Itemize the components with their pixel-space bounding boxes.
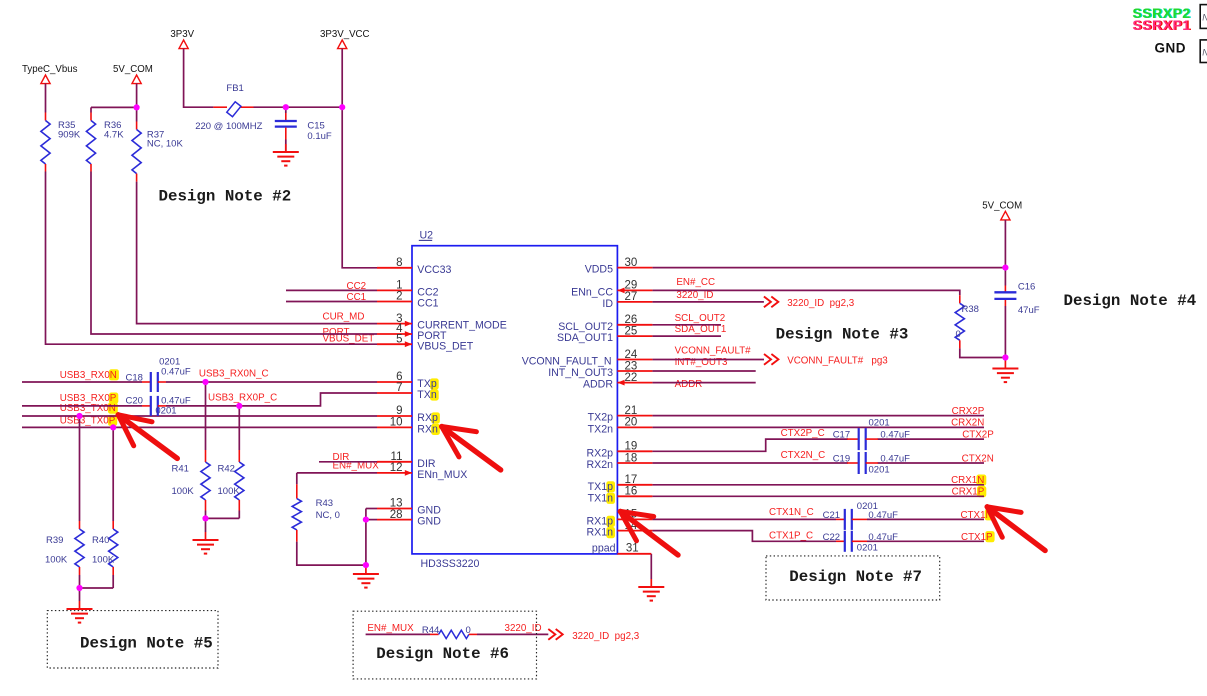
- wire R36 bottom to PORT pin4: [91, 172, 377, 335]
- svg-text:10: 10: [390, 417, 403, 429]
- svg-text:25: 25: [625, 325, 638, 337]
- svg-text:20: 20: [625, 417, 638, 429]
- net label CRX1P: [977, 486, 986, 497]
- pin 3 CURRENT_MODE: [377, 323, 412, 325]
- svg-text:0201: 0201: [857, 501, 878, 512]
- svg-text:Design Note #6: Design Note #6: [376, 645, 509, 663]
- capacitor C19: [847, 462, 859, 464]
- svg-text:Design Note #3: Design Note #3: [776, 325, 909, 343]
- wire USB3_RX0N_C row C18 to TXp pin6: [166, 381, 377, 383]
- resistor R35: [45, 113, 47, 121]
- svg-text:26: 26: [625, 314, 638, 326]
- svg-text:TypeC_Vbus: TypeC_Vbus: [22, 64, 78, 75]
- svg-text:C15: C15: [307, 120, 324, 131]
- wire ADDR pin22: [652, 382, 755, 384]
- pin 26 SCL_OUT2: [617, 324, 652, 326]
- wire C15 tap: [285, 107, 287, 113]
- svg-text:R40: R40: [92, 535, 109, 546]
- svg-text:Design Note #5: Design Note #5: [80, 634, 213, 652]
- annotation arrow at RXn pin: [442, 427, 501, 470]
- svg-text:0.47uF: 0.47uF: [880, 430, 910, 441]
- svg-text:3220_ID pg2,3: 3220_ID pg2,3: [787, 298, 855, 309]
- svg-text:CUR_MD: CUR_MD: [323, 312, 365, 323]
- svg-text:Design Note #4: Design Note #4: [1064, 292, 1197, 310]
- svg-text:3220_ID: 3220_ID: [676, 290, 713, 301]
- svg-text:CTX2N_C: CTX2N_C: [781, 450, 826, 461]
- svg-text:C17: C17: [833, 430, 850, 441]
- net label USB3_RX0P: [109, 393, 118, 404]
- pin 23 INT_N_OUT3: [617, 370, 652, 372]
- svg-text:RX2n: RX2n: [586, 459, 613, 471]
- ground (C16/R38): [1004, 361, 1006, 369]
- svg-text:ADDR: ADDR: [675, 379, 703, 390]
- wire C19 to CTX2N: [878, 462, 985, 464]
- wire ppad pin31 to ground: [650, 554, 652, 579]
- svg-text:USB3_TX0P: USB3_TX0P: [60, 415, 116, 426]
- resistor R40: [112, 521, 114, 529]
- pin 1 CC2: [377, 289, 412, 291]
- junction node GND pins: [363, 517, 369, 523]
- svg-text:C22: C22: [823, 532, 840, 543]
- svg-text:C21: C21: [823, 510, 840, 521]
- svg-text:R38: R38: [962, 304, 979, 315]
- svg-text:C16: C16: [1018, 281, 1035, 292]
- svg-text:100K: 100K: [172, 486, 195, 497]
- junction node R41/R42 gnd: [202, 515, 208, 521]
- junction node R39/R40 gnd: [76, 585, 82, 591]
- svg-text:VCC33: VCC33: [417, 264, 451, 276]
- svg-text:USB3_RX0N: USB3_RX0N: [60, 370, 117, 381]
- pin 13 GND: [377, 508, 412, 510]
- junction node USB3_RX0N_C: [202, 379, 208, 385]
- net label CTX1N: [985, 509, 995, 520]
- wire SCL_OUT2 pin26: [652, 324, 721, 326]
- svg-text:4.7K: 4.7K: [104, 129, 124, 140]
- pin 4 PORT: [377, 333, 412, 335]
- ground (R41/R42): [205, 532, 207, 540]
- wire RX1p pin15 to C21: [652, 518, 836, 520]
- svg-text:CTX1P_C: CTX1P_C: [769, 531, 813, 542]
- svg-text:RX1p: RX1p: [586, 516, 613, 528]
- junction node USB3_TX0P: [110, 424, 116, 430]
- svg-text:0.47uF: 0.47uF: [880, 454, 910, 465]
- capacitor C21: [836, 518, 845, 520]
- wire VDD5 pin30 to 5V_COM node: [652, 267, 1005, 269]
- svg-text:100K: 100K: [45, 554, 68, 565]
- svg-text:3P3V: 3P3V: [170, 29, 194, 40]
- junction node 3P3V_VCC: [339, 104, 345, 110]
- wire TX1n pin16 to CRX1P: [652, 495, 984, 497]
- resistor R36: [90, 113, 92, 121]
- svg-text:TXn: TXn: [417, 389, 437, 401]
- svg-text:18: 18: [625, 452, 638, 464]
- off-page connector 3220_ID (pin27): [764, 297, 778, 308]
- junction node 5V_COM/R36: [134, 104, 140, 110]
- pin 16 TX1n: [617, 495, 652, 497]
- svg-text:0201: 0201: [857, 542, 878, 553]
- svg-text:EN#_CC: EN#_CC: [676, 277, 715, 288]
- svg-text:SDA_OUT1: SDA_OUT1: [675, 324, 727, 335]
- wire 3P3V_VCC down to VCC33 pin8: [342, 49, 377, 268]
- pin 27 ID: [617, 301, 652, 303]
- ferrite bead FB1: [213, 106, 227, 108]
- wire RX2p pin19 jog to C17: [652, 439, 848, 451]
- svg-text:29: 29: [625, 280, 638, 292]
- svg-text:Design Note #2: Design Note #2: [159, 187, 292, 205]
- svg-text:TX2p: TX2p: [588, 412, 613, 424]
- pin 12 ENn_MUX: [377, 472, 412, 474]
- resistor R43: [296, 484, 298, 498]
- resistor R37: [136, 122, 138, 130]
- pin 15 RX1p: [617, 518, 652, 520]
- svg-text:17: 17: [625, 474, 638, 486]
- pin 8 VCC33: [377, 267, 412, 269]
- svg-text:0: 0: [956, 329, 961, 340]
- junction node C15 tap: [283, 104, 289, 110]
- wire R39/R40 bottoms join to ground: [79, 575, 81, 588]
- svg-text:100K: 100K: [218, 486, 241, 497]
- junction node USB3_RX0P_C: [236, 403, 242, 409]
- svg-text:TX1n: TX1n: [588, 492, 613, 504]
- off-page connector VCONN_FAULT#: [764, 354, 778, 365]
- annotation arrow at CTX1N: [987, 507, 1045, 551]
- wire CC2: [286, 289, 377, 291]
- wire TX2n pin20 to CRX2N: [652, 426, 984, 428]
- svg-text:0201: 0201: [869, 465, 890, 476]
- svg-text:5: 5: [396, 333, 402, 345]
- svg-text:RXp: RXp: [417, 412, 438, 424]
- svg-text:SSRXP1: SSRXP1: [1132, 17, 1190, 33]
- wire TX1p pin17 to CRX1N: [652, 484, 984, 486]
- pin 6 TXp: [377, 381, 412, 383]
- pin 22 ADDR: [617, 382, 652, 384]
- svg-text:HD3SS3220: HD3SS3220: [421, 558, 480, 570]
- pin 24 VCONN_FAULT_N: [617, 359, 652, 361]
- junction node USB3_TX0N: [76, 413, 82, 419]
- pin 19 RX2p: [617, 450, 652, 452]
- wire USB3_TX0N row to RXp pin9: [22, 415, 377, 417]
- wire C16 column: [1004, 268, 1006, 286]
- wire EN#_MUX to pin12 and down to R43: [297, 472, 377, 474]
- ground (C15): [285, 144, 287, 152]
- svg-text:909K: 909K: [58, 129, 81, 140]
- pin 11 DIR: [377, 461, 412, 463]
- svg-text:N: N: [1202, 13, 1207, 23]
- pin 14 RX1n: [617, 530, 652, 532]
- pin 30 VDD5: [617, 267, 652, 269]
- wire USB3_RX0P_C branch down to R42: [238, 406, 240, 450]
- pin 5 VBUS_DET: [377, 343, 412, 345]
- svg-text:19: 19: [625, 441, 638, 453]
- note box 1 (clipped at right edge): [1200, 5, 1207, 29]
- wire SDA_OUT1 pin25: [652, 335, 721, 337]
- wire USB3_TX0P row to RXn pin10: [22, 426, 377, 428]
- svg-text:RXn: RXn: [417, 424, 438, 436]
- power symbol 3P3V: [179, 40, 188, 49]
- svg-text:16: 16: [625, 486, 638, 498]
- wire R37 bottom to CURRENT_MODE pin3: [137, 182, 377, 324]
- svg-text:CTX1N_C: CTX1N_C: [769, 507, 814, 518]
- capacitor C15: [285, 113, 287, 120]
- svg-text:ADDR: ADDR: [583, 379, 613, 391]
- svg-text:100K: 100K: [92, 554, 115, 565]
- svg-text:CTX2P_C: CTX2P_C: [781, 428, 825, 439]
- pin 9 RXp: [377, 415, 412, 417]
- svg-text:EN#_MUX: EN#_MUX: [367, 623, 414, 634]
- annotation arrow at pin15: [620, 511, 678, 555]
- wire CC1: [286, 301, 377, 303]
- pin 25 SDA_OUT1: [617, 335, 652, 337]
- wire 3P3V to FB1: [184, 49, 214, 108]
- box Design Note #7: [766, 556, 940, 600]
- pin 21 TX2p: [617, 415, 652, 417]
- svg-text:ENn_CC: ENn_CC: [571, 287, 613, 299]
- svg-text:VCONN_FAULT#: VCONN_FAULT#: [675, 346, 752, 357]
- wire 3220_ID pin27 to offpage: [652, 301, 764, 303]
- svg-text:Design Note #7: Design Note #7: [789, 568, 922, 586]
- net label USB3_TX0N: [108, 403, 118, 414]
- svg-text:47uF: 47uF: [1018, 305, 1040, 316]
- wire DIR to pin11: [319, 461, 377, 463]
- wire EN#_CC pin29 to R38: [652, 290, 959, 295]
- power symbol 5V_COM (left): [132, 75, 141, 84]
- capacitor C17: [847, 438, 859, 440]
- wire C22 to CTX1P: [867, 540, 984, 542]
- wire VCONN_FAULT_N pin24 to offpage: [652, 359, 764, 361]
- svg-text:ppad: ppad: [592, 542, 616, 554]
- svg-text:TX2n: TX2n: [588, 424, 613, 436]
- svg-text:22: 22: [625, 372, 638, 384]
- wire RX1n pin14 jog to C22: [652, 531, 836, 542]
- junction node R43 gnd: [363, 562, 369, 568]
- wire TX2p pin21 to CRX2P: [652, 415, 984, 417]
- net label CTX1P: [985, 531, 994, 542]
- svg-text:0201: 0201: [155, 405, 176, 416]
- wire design-note6 EN#_MUX to R44: [366, 633, 430, 635]
- pin 20 TX2n: [617, 426, 652, 428]
- svg-text:U2: U2: [420, 230, 434, 242]
- wire R43 bottom to ground node: [297, 542, 366, 566]
- svg-text:28: 28: [390, 509, 403, 521]
- junction node VDD5/5V_COM: [1002, 265, 1008, 271]
- power symbol 5V_COM (right): [1001, 211, 1010, 220]
- power symbol TypeC_Vbus: [41, 75, 50, 84]
- wire FB1 to C15/3P3V_VCC node: [254, 106, 343, 108]
- pin 29 ENn_CC: [617, 289, 652, 291]
- svg-text:220 @ 100MHZ: 220 @ 100MHZ: [195, 121, 262, 132]
- pin 28 GND: [377, 519, 412, 521]
- wire INT_N_OUT3 pin23: [652, 370, 755, 372]
- svg-text:9: 9: [396, 405, 402, 417]
- wire USB3_RX0N_C branch down to R41: [205, 382, 207, 450]
- note box 2 (clipped at right edge): [1200, 40, 1207, 63]
- svg-text:0.47uF: 0.47uF: [868, 532, 898, 543]
- capacitor C18: [142, 381, 151, 383]
- svg-text:2: 2: [396, 291, 402, 303]
- wire R38 bottom to ground node: [960, 348, 1006, 357]
- svg-text:RX1n: RX1n: [586, 527, 613, 539]
- net label USB3_RX0N: [109, 369, 119, 380]
- svg-text:USB3_RX0P_C: USB3_RX0P_C: [208, 392, 277, 403]
- svg-text:VDD5: VDD5: [585, 264, 613, 276]
- svg-text:R39: R39: [46, 535, 63, 546]
- svg-text:5V_COM: 5V_COM: [113, 64, 153, 75]
- svg-text:27: 27: [625, 291, 638, 303]
- svg-text:0201: 0201: [159, 357, 180, 368]
- wire USB3_TX0N branch down to R39: [79, 416, 81, 521]
- ground (ppad): [650, 579, 652, 587]
- junction node C16/R38 gnd: [1002, 354, 1008, 360]
- pin 2 CC1: [377, 301, 412, 303]
- wire C17 to CTX2P: [878, 438, 985, 440]
- svg-text:N: N: [1202, 47, 1207, 57]
- capacitor C20: [142, 405, 151, 407]
- annotation arrow at USB3_TX0 labels: [118, 415, 177, 459]
- svg-text:R42: R42: [218, 464, 235, 475]
- wire R41/R42 bottoms join to ground: [205, 511, 207, 519]
- resistor R38: [959, 295, 961, 303]
- svg-text:30: 30: [625, 257, 638, 269]
- wire USB3_RX0P_C row C20 to TXn pin7: [166, 393, 377, 406]
- wire GND pin13: [366, 508, 377, 510]
- wire USB3_RX0P row to C20: [22, 405, 142, 407]
- box Design Note #6: [353, 611, 536, 679]
- svg-text:RX2p: RX2p: [586, 447, 613, 459]
- pin 10 RXn: [377, 426, 412, 428]
- capacitor C16: [1004, 286, 1006, 292]
- svg-text:SCL_OUT2: SCL_OUT2: [675, 313, 726, 324]
- svg-text:24: 24: [625, 349, 638, 361]
- svg-text:21: 21: [625, 405, 638, 417]
- wire C15 bottom to ground: [285, 140, 287, 153]
- svg-text:5V_COM: 5V_COM: [982, 201, 1022, 212]
- wire 5V_COM branch to R36: [136, 84, 138, 122]
- svg-text:ID: ID: [602, 298, 613, 310]
- svg-text:CC1: CC1: [417, 298, 438, 310]
- off-page connector 3220_ID (design note 6): [548, 629, 562, 640]
- net label CRX1N: [976, 475, 986, 486]
- svg-text:GND: GND: [417, 516, 441, 528]
- svg-text:7: 7: [396, 382, 402, 394]
- svg-text:3220_ID pg2,3: 3220_ID pg2,3: [572, 631, 640, 642]
- svg-text:SDA_OUT1: SDA_OUT1: [557, 332, 613, 344]
- svg-text:USB3_RX0N_C: USB3_RX0N_C: [199, 369, 269, 380]
- pin 7 TXn: [377, 392, 412, 394]
- wire GND pin28: [366, 519, 377, 521]
- power symbol 3P3V_VCC: [338, 40, 347, 49]
- svg-text:NC, 10K: NC, 10K: [147, 139, 184, 150]
- svg-text:VCONN_FAULT_N: VCONN_FAULT_N: [522, 356, 612, 368]
- wire USB3_TX0P branch down to R40: [112, 427, 114, 521]
- wire RX2n pin18 to C19: [652, 462, 848, 464]
- svg-text:3P3V_VCC: 3P3V_VCC: [320, 29, 370, 40]
- svg-text:23: 23: [625, 360, 638, 372]
- svg-text:USB3_TX0N: USB3_TX0N: [60, 403, 116, 414]
- svg-text:0201: 0201: [869, 417, 890, 428]
- wire USB3_RX0N row to C18: [22, 381, 142, 383]
- op-amp n/a: IC U2 HD3SS3220 body: [412, 246, 617, 554]
- wire R44 to offpage 3220_ID: [477, 633, 548, 635]
- resistor R42: [238, 450, 240, 462]
- wire C21 to CTX1N: [867, 518, 984, 520]
- resistor R39: [79, 521, 81, 529]
- svg-text:0.47uF: 0.47uF: [161, 367, 191, 378]
- svg-text:INT_N_OUT3: INT_N_OUT3: [548, 367, 613, 379]
- svg-text:TX1p: TX1p: [588, 481, 613, 493]
- ground (R43/GND pins): [365, 566, 367, 574]
- svg-text:FB1: FB1: [226, 83, 243, 94]
- svg-text:C19: C19: [833, 454, 850, 465]
- svg-text:GND: GND: [1155, 40, 1187, 55]
- ground (R39/R40): [79, 601, 81, 609]
- svg-text:R43: R43: [316, 498, 333, 509]
- svg-text:0.1uF: 0.1uF: [307, 131, 331, 142]
- svg-text:SCL_OUT2: SCL_OUT2: [558, 321, 613, 333]
- svg-text:VBUS_DET: VBUS_DET: [323, 334, 375, 345]
- box Design Note #5: [47, 611, 218, 668]
- svg-text:R44: R44: [422, 625, 439, 636]
- svg-text:8: 8: [396, 257, 402, 269]
- wire 5V_COM down to node: [1004, 220, 1006, 268]
- resistor R41: [205, 450, 207, 462]
- svg-text:0: 0: [466, 625, 471, 636]
- pin 31 ppad: [617, 553, 651, 555]
- svg-text:NC, 0: NC, 0: [316, 510, 340, 521]
- svg-text:VBUS_DET: VBUS_DET: [417, 340, 473, 352]
- svg-text:C18: C18: [126, 373, 143, 384]
- svg-text:C20: C20: [126, 396, 143, 407]
- svg-text:R41: R41: [172, 464, 189, 475]
- svg-text:VCONN_FAULT# pg3: VCONN_FAULT# pg3: [787, 356, 888, 367]
- svg-text:ENn_MUX: ENn_MUX: [417, 469, 467, 481]
- svg-text:31: 31: [626, 542, 639, 554]
- svg-text:12: 12: [390, 462, 403, 474]
- wire GND vertical to ground: [365, 509, 367, 567]
- svg-text:3220_ID: 3220_ID: [505, 623, 542, 634]
- wire TypeC_Vbus to R35 to VBUS_DET pin5: [45, 84, 47, 113]
- pin 17 TX1p: [617, 484, 652, 486]
- capacitor C22: [836, 540, 845, 542]
- net label USB3_TX0P: [108, 415, 117, 426]
- pin 18 RX2n: [617, 462, 652, 464]
- resistor R44: [430, 633, 439, 635]
